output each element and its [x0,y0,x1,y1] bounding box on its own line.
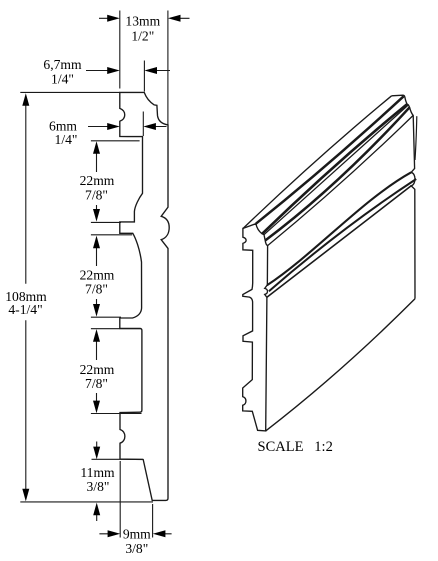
svg-text:1/2": 1/2" [131,28,154,43]
svg-text:22mm: 22mm [80,362,115,377]
svg-text:9mm: 9mm [123,526,151,541]
svg-text:22mm: 22mm [80,267,115,282]
svg-text:1/4": 1/4" [51,72,74,87]
svg-text:11mm: 11mm [80,465,115,480]
svg-text:7/8": 7/8" [85,376,108,391]
svg-text:3/8": 3/8" [87,479,110,494]
svg-text:6,7mm: 6,7mm [43,57,82,72]
svg-text:SCALE 1:2: SCALE 1:2 [258,439,333,455]
svg-text:4-1/4": 4-1/4" [8,302,42,317]
svg-text:1/4": 1/4" [55,132,78,147]
svg-text:13mm: 13mm [125,13,160,28]
svg-text:3/8": 3/8" [125,541,148,556]
svg-text:7/8": 7/8" [85,282,108,297]
svg-text:22mm: 22mm [80,173,115,188]
svg-text:7/8": 7/8" [85,187,108,202]
